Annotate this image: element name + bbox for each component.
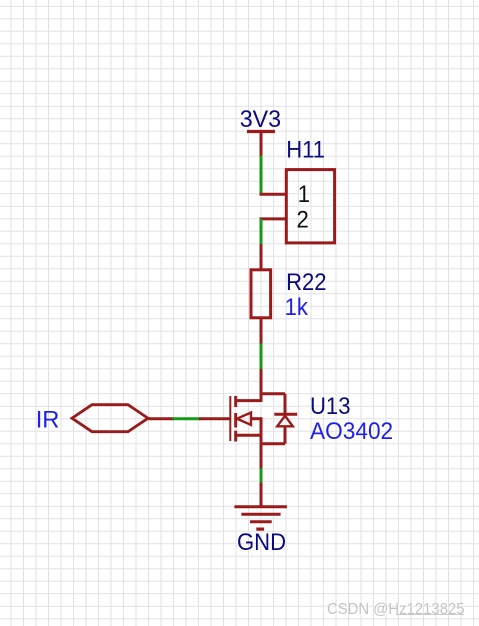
svg-text:1k: 1k — [285, 293, 309, 320]
svg-text:IR: IR — [36, 406, 60, 433]
svg-text:AO3402: AO3402 — [310, 417, 393, 444]
svg-text:H11: H11 — [286, 136, 325, 163]
svg-text:R22: R22 — [286, 268, 326, 295]
svg-text:GND: GND — [237, 528, 286, 555]
svg-text:3V3: 3V3 — [240, 107, 281, 133]
svg-text:1: 1 — [298, 180, 310, 207]
svg-text:2: 2 — [297, 206, 309, 233]
svg-text:U13: U13 — [310, 392, 350, 419]
